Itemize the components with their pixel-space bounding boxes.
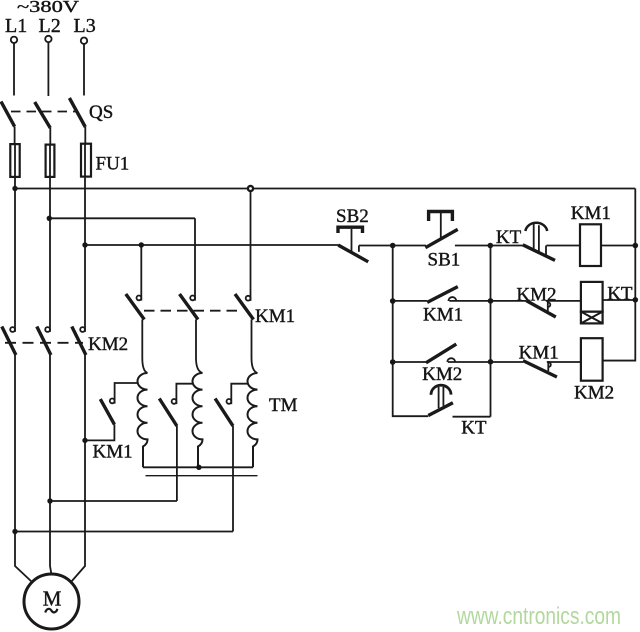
svg-text:L3: L3 [74,15,96,37]
svg-text:KM2: KM2 [422,364,462,385]
svg-text:KM2: KM2 [574,383,614,404]
svg-text:FU1: FU1 [96,154,130,175]
svg-text:KM1: KM1 [519,342,559,363]
svg-text:www.cntronics.com: www.cntronics.com [456,603,621,630]
svg-text:QS: QS [89,102,113,123]
svg-text:M: M [43,587,62,611]
svg-text:KT: KT [461,418,487,439]
svg-text:KT: KT [496,227,522,248]
svg-text:KM1: KM1 [423,304,463,325]
svg-text:TM: TM [269,395,298,416]
svg-text:L2: L2 [39,15,61,37]
svg-text:KM1: KM1 [255,306,295,327]
svg-text:KM1: KM1 [571,203,611,224]
svg-text:KM2: KM2 [516,285,556,306]
svg-text:KT: KT [607,284,633,305]
svg-text:~380V: ~380V [17,0,80,16]
svg-text:SB2: SB2 [336,206,369,227]
svg-text:KM1: KM1 [93,442,133,463]
svg-text:L1: L1 [5,15,27,37]
svg-text:SB1: SB1 [428,250,461,271]
svg-text:KM2: KM2 [88,334,128,355]
